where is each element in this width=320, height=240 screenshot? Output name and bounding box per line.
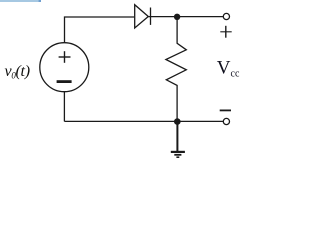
svg-text:v0(t): v0(t)	[5, 63, 30, 81]
